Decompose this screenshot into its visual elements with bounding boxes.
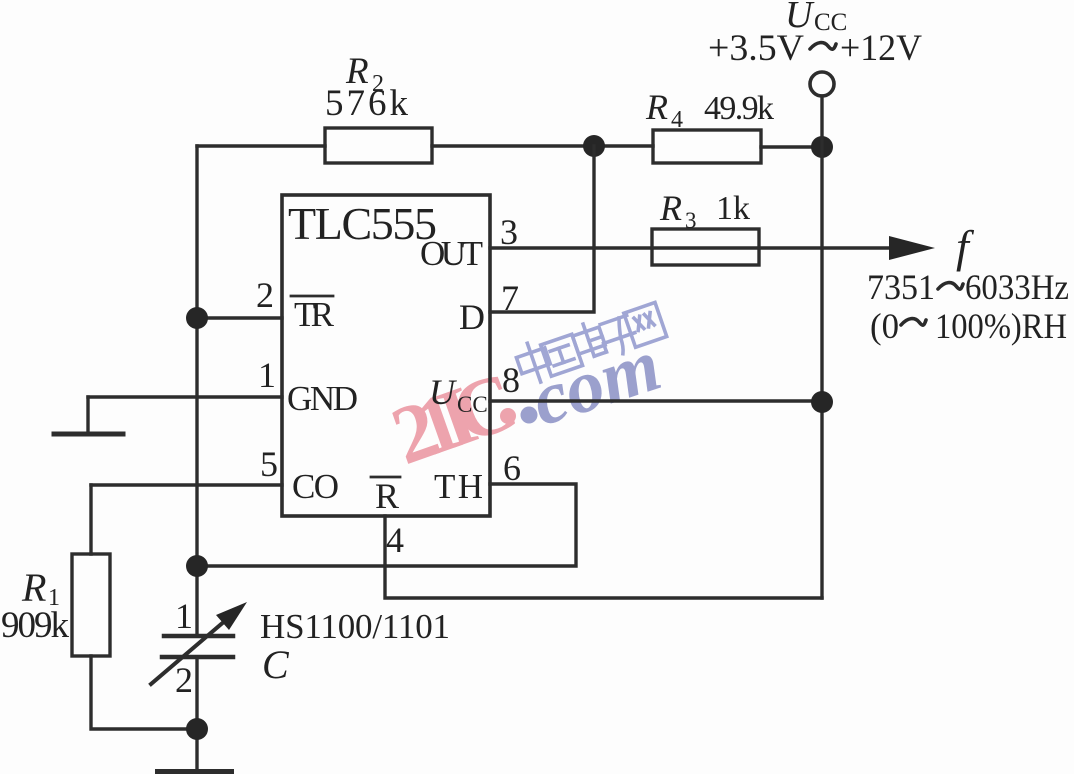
svg-text:+3.5V: +3.5V	[708, 28, 804, 69]
svg-text:C: C	[262, 642, 290, 687]
svg-text:TR: TR	[294, 295, 335, 334]
svg-text:909k: 909k	[1, 605, 70, 646]
svg-text:R: R	[659, 188, 682, 228]
wire: R1 bottom to cap node	[91, 656, 197, 729]
svg-text:1: 1	[258, 355, 276, 395]
svg-text:6: 6	[503, 448, 521, 488]
wire: pin 4 reset to supply rail	[385, 516, 822, 598]
resistor R4 body	[653, 130, 761, 163]
wire: pin 1 GND stub	[88, 395, 282, 398]
label R2	[345, 51, 384, 97]
svg-text:8: 8	[502, 360, 520, 400]
svg-text:1k: 1k	[716, 190, 750, 227]
svg-text:4: 4	[671, 107, 683, 133]
resistor R3 body	[652, 229, 759, 265]
resistor R1 body	[72, 554, 110, 656]
svg-text:CC: CC	[457, 392, 488, 417]
svg-text:7351: 7351	[867, 267, 935, 307]
node: cap/R1 junction	[186, 718, 208, 740]
wire: cap bottom to ground	[195, 657, 198, 769]
capacitor arrow (variable)	[151, 602, 247, 684]
arrow head output f	[889, 236, 935, 260]
wire: pin 7 D to R2/R4 node	[490, 146, 594, 312]
svg-text:R: R	[21, 565, 46, 610]
IC U1 TLC555 box	[282, 195, 490, 516]
svg-text:U: U	[429, 372, 457, 412]
wire: pin 5 CO stub	[91, 483, 282, 486]
watermark .com	[521, 323, 671, 442]
svg-text:HS1100/1101: HS1100/1101	[260, 607, 450, 646]
node: TR junction	[186, 307, 208, 329]
label R-bar reset	[371, 476, 400, 516]
watermark chinese characters	[513, 300, 667, 387]
svg-text:D: D	[459, 297, 485, 337]
wire: pin 6 TH loop to cap top	[197, 484, 576, 566]
svg-text:5: 5	[260, 444, 278, 484]
wire: top rail from left corner to R2	[197, 144, 325, 147]
wire: R4 right to supply rail	[761, 145, 822, 148]
label Ucc pin 8	[429, 372, 488, 417]
svg-text:com: com	[522, 323, 670, 442]
label R1	[21, 565, 60, 611]
ground symbol bottom	[158, 769, 231, 774]
capacitor C HS1100 top plate	[164, 634, 233, 639]
svg-text:49.9k: 49.9k	[704, 90, 774, 127]
label 7351~6033Hz	[867, 267, 1069, 307]
wire: supply vertical rail	[820, 96, 823, 598]
svg-text:R: R	[645, 87, 668, 127]
svg-text:6033Hz: 6033Hz	[965, 267, 1069, 307]
label R3 1k	[659, 188, 750, 233]
wire: pin 2 TR stub	[197, 316, 282, 319]
node: junction R4/supply	[811, 136, 833, 158]
wire: pin 3 OUT line	[490, 246, 898, 249]
svg-text:CO: CO	[292, 467, 339, 506]
svg-text:4: 4	[386, 520, 404, 560]
svg-text:+12V: +12V	[840, 28, 922, 69]
svg-text:2: 2	[175, 660, 193, 700]
svg-text:1: 1	[175, 596, 193, 636]
label (0~100%)RH	[870, 306, 1067, 346]
label R4 49.9k	[645, 87, 774, 133]
svg-text:R: R	[375, 476, 399, 516]
svg-text:3: 3	[685, 208, 697, 233]
node: pin8/supply junction	[811, 391, 833, 413]
svg-text:f: f	[956, 221, 975, 272]
svg-text:3: 3	[500, 212, 518, 252]
svg-text:GND: GND	[287, 379, 358, 418]
label Ucc	[785, 0, 847, 36]
wire: left vertical rail upper	[195, 146, 198, 636]
ground symbol left	[54, 397, 123, 434]
power terminal Ucc circle	[810, 72, 834, 96]
svg-text:TH: TH	[434, 467, 483, 506]
label TR with overline	[291, 295, 335, 334]
svg-text:(0: (0	[870, 306, 899, 346]
wire: top rail R2 to R4 through node	[432, 144, 653, 147]
label +3.5V~+12V	[708, 28, 922, 69]
node: TH/cap junction	[186, 555, 208, 577]
wire: pin 8 to supply rail	[490, 399, 822, 402]
svg-text:OUT: OUT	[420, 234, 483, 273]
capacitor C HS1100 bottom plate	[162, 655, 233, 660]
svg-text:2: 2	[256, 275, 274, 315]
node: junction R2/R4/pin7	[583, 135, 605, 157]
watermark 21IC	[380, 356, 522, 482]
svg-text:TLC555: TLC555	[288, 198, 437, 249]
wire: CO down to R1	[89, 485, 92, 554]
svg-text:100%)RH: 100%)RH	[935, 306, 1067, 346]
resistor R2 body	[325, 128, 432, 163]
